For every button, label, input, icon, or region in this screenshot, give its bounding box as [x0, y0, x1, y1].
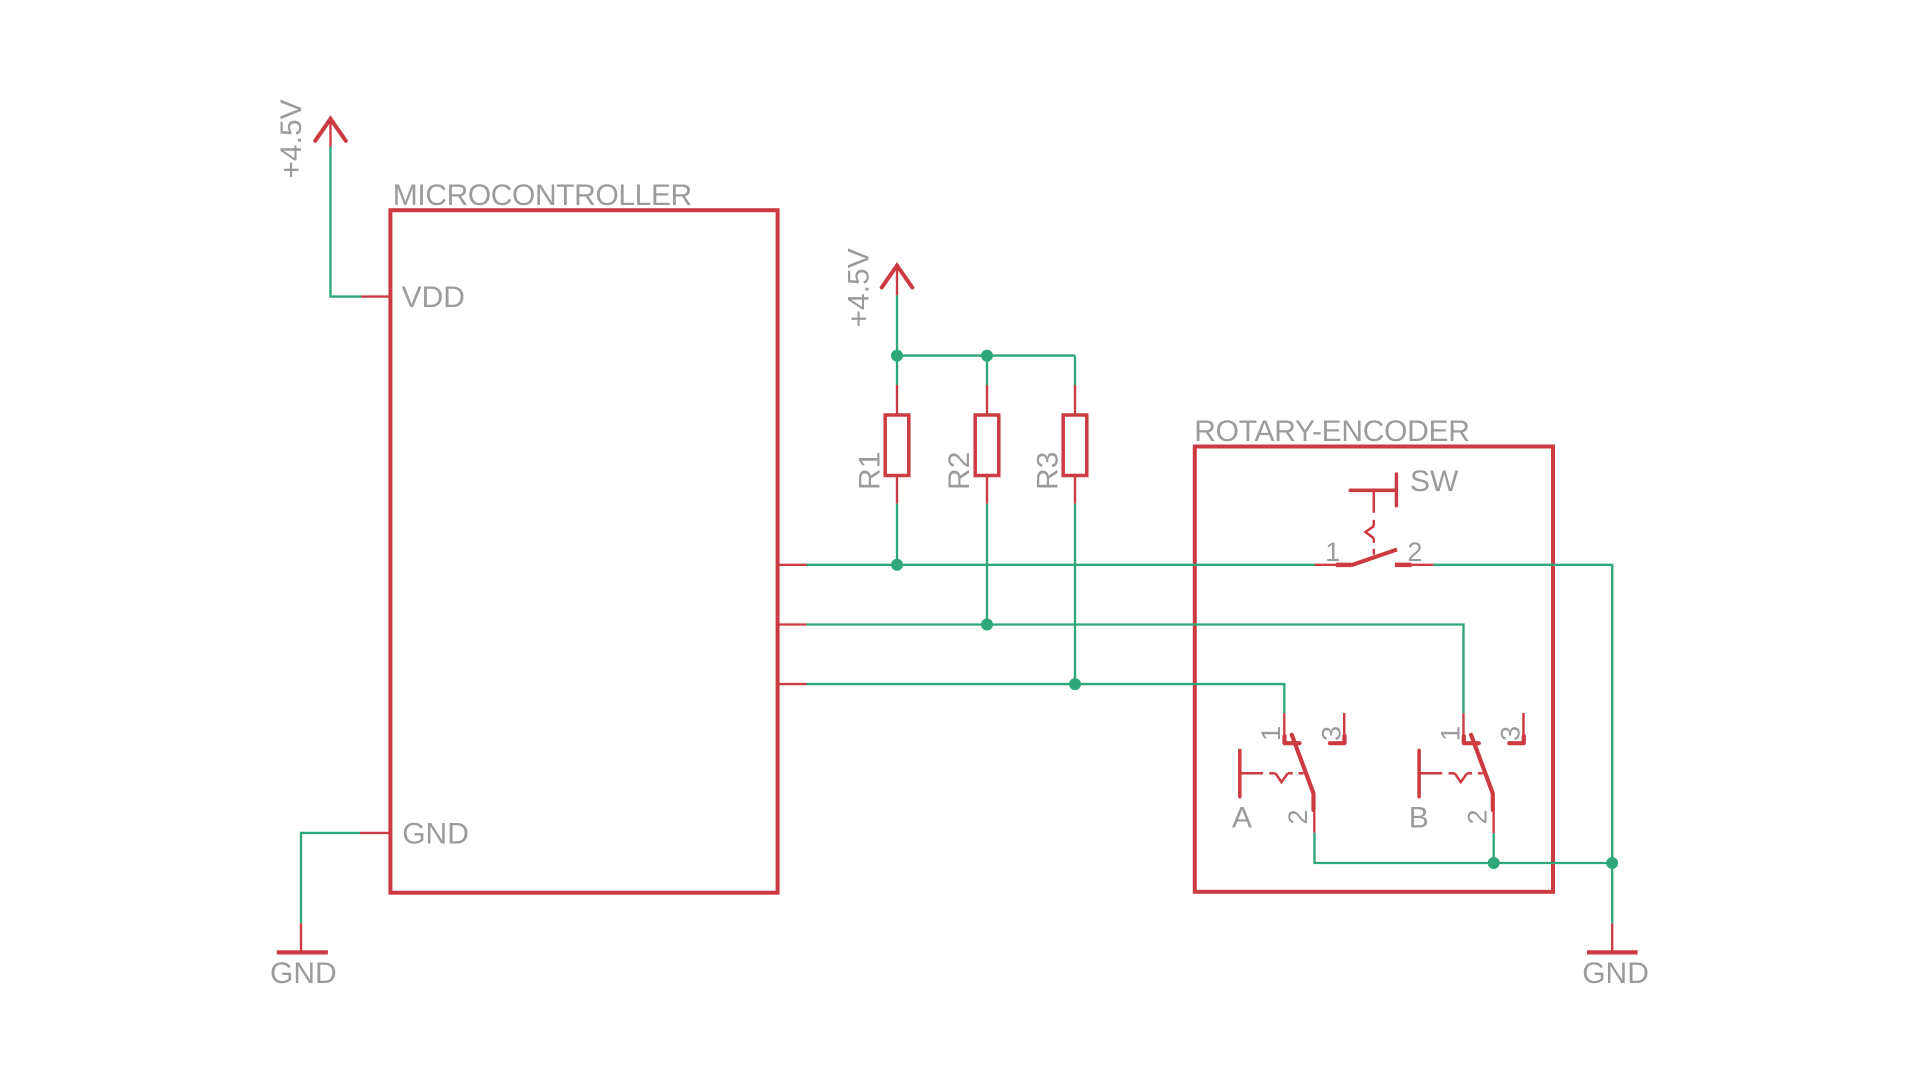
- svg-text:2: 2: [1407, 537, 1422, 567]
- svg-text:VDD: VDD: [402, 281, 465, 314]
- svg-text:GND: GND: [402, 818, 469, 851]
- svg-text:R2: R2: [943, 452, 976, 490]
- svg-text:1: 1: [1325, 537, 1340, 567]
- svg-text:3: 3: [1316, 726, 1346, 741]
- svg-text:A: A: [1232, 802, 1252, 835]
- svg-text:ROTARY-ENCODER: ROTARY-ENCODER: [1194, 415, 1469, 448]
- svg-text:+4.5V: +4.5V: [843, 248, 876, 327]
- svg-text:MICROCONTROLLER: MICROCONTROLLER: [393, 179, 692, 212]
- svg-text:1: 1: [1435, 726, 1465, 741]
- svg-text:B: B: [1409, 802, 1429, 835]
- svg-text:1: 1: [1256, 726, 1286, 741]
- svg-text:SW: SW: [1410, 465, 1459, 498]
- svg-text:3: 3: [1496, 726, 1526, 741]
- svg-text:2: 2: [1463, 809, 1493, 824]
- svg-text:2: 2: [1283, 809, 1313, 824]
- svg-text:R3: R3: [1032, 452, 1065, 490]
- svg-text:GND: GND: [1582, 957, 1649, 990]
- svg-text:GND: GND: [270, 957, 337, 990]
- svg-text:R1: R1: [854, 452, 887, 490]
- svg-text:+4.5V: +4.5V: [275, 99, 308, 178]
